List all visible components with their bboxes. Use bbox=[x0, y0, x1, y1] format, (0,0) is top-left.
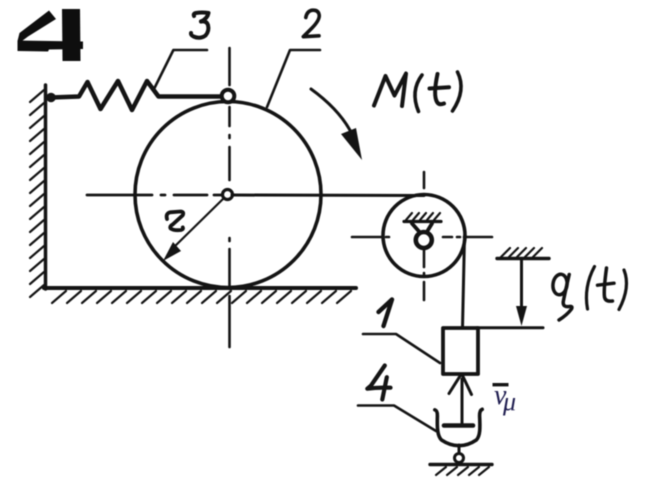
label 1 bbox=[379, 300, 393, 327]
pulley horizontal centerline bbox=[352, 236, 492, 239]
ground under disk bbox=[44, 286, 356, 290]
cup ball support bbox=[455, 454, 464, 463]
q(t) support ceiling bbox=[497, 257, 549, 260]
label 3 bbox=[191, 13, 209, 38]
disk top node bbox=[222, 90, 235, 103]
wall hatching bbox=[30, 90, 44, 297]
cup stem bbox=[458, 445, 461, 454]
leader for label 2 bbox=[267, 50, 320, 107]
figure number 4 bbox=[18, 9, 84, 61]
moment arc M(t) bbox=[311, 89, 352, 134]
radius arrow r bbox=[171, 198, 224, 250]
wall bbox=[44, 85, 48, 289]
liquid level in cup bbox=[444, 423, 473, 428]
rope from pulley to block bbox=[463, 236, 465, 328]
leader for label 3 bbox=[154, 50, 207, 89]
leader for label 4 bbox=[358, 406, 436, 432]
jet arrow into block bbox=[461, 379, 464, 425]
label 4 bbox=[367, 366, 390, 400]
label v_mu overbar bbox=[493, 383, 509, 386]
leader for label 1 bbox=[363, 334, 440, 363]
spring wall pin bbox=[46, 93, 56, 103]
label M(t) bbox=[374, 72, 461, 112]
pulley support ceiling bbox=[404, 220, 441, 223]
ground under cup bbox=[430, 463, 492, 466]
label q(t) bbox=[552, 267, 627, 321]
disk center node bbox=[223, 190, 233, 200]
radius label r bbox=[167, 212, 184, 231]
spring 3 bbox=[51, 81, 221, 110]
disk 2 bbox=[135, 102, 321, 288]
disk horizontal centerline bbox=[87, 194, 222, 197]
pulley bbox=[383, 195, 465, 277]
disk vertical centerline bbox=[228, 48, 231, 347]
pulley support bracket bbox=[412, 224, 420, 233]
q reference line bbox=[477, 326, 543, 329]
cup 4 bbox=[435, 409, 482, 445]
rope from disk center to pulley bbox=[232, 194, 424, 198]
q(t) arrow bbox=[520, 259, 523, 311]
pulley pin bbox=[416, 232, 432, 248]
label 2 bbox=[303, 10, 319, 37]
pulley vertical centerline bbox=[423, 172, 426, 300]
ground hatching bbox=[52, 291, 351, 303]
block 1 bbox=[443, 328, 478, 374]
